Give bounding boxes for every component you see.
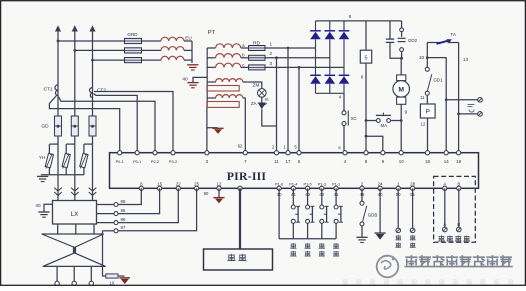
chevron feeder x75 <box>71 188 79 191</box>
label pin1 device <box>395 235 401 240</box>
svg-text:18: 18 <box>425 159 430 164</box>
pin top 18@428 <box>425 151 429 155</box>
label button 4 <box>333 243 339 249</box>
CT2 current transformer <box>90 88 93 98</box>
svg-text:EU: EU <box>185 35 191 40</box>
wire LX to rotor 2 <box>75 224 77 235</box>
chevron feeder x92 <box>89 188 97 191</box>
svg-text:86: 86 <box>121 208 126 213</box>
pin bottom P1-5@308 <box>306 186 310 190</box>
svg-text:PT: PT <box>208 30 216 36</box>
wire pin40 down <box>278 188 280 239</box>
svg-text:86: 86 <box>121 217 126 222</box>
resistor 1X <box>106 274 118 278</box>
wire bus to box5 <box>365 21 367 50</box>
svg-text:81: 81 <box>265 96 269 101</box>
winding PT c <box>207 66 215 68</box>
svg-text:A: A <box>443 222 446 227</box>
svg-text:15: 15 <box>157 181 162 186</box>
ground pin12 <box>213 197 224 199</box>
svg-text:P3-2: P3-2 <box>169 159 177 164</box>
wire drop to term 6 <box>298 67 300 152</box>
wire aux common down <box>206 107 208 152</box>
wire LX stub 87 <box>103 230 115 232</box>
capacitor C1 <box>389 21 391 39</box>
arrester YH2 <box>66 143 75 145</box>
pushbutton SB2 <box>307 188 309 205</box>
block comm interface (dashed) <box>434 176 476 242</box>
wire pin A down <box>444 188 446 227</box>
node motor-MA <box>400 119 403 122</box>
svg-text:P0-1: P0-1 <box>116 159 124 164</box>
node AC3 drop <box>298 66 301 69</box>
terminal B out <box>457 227 462 232</box>
regulator PIR-III box <box>110 153 479 189</box>
pin bottom 28@413 <box>411 186 415 190</box>
block 5 <box>360 50 371 63</box>
watermark faint bottom <box>342 279 514 284</box>
contact GD1 <box>425 67 429 71</box>
svg-text:12: 12 <box>217 181 222 186</box>
block LX terminal box <box>53 201 97 225</box>
wire ground branch <box>207 127 218 129</box>
ground pin24 <box>375 232 386 234</box>
svg-text:LX: LX <box>71 211 79 218</box>
svg-text:62: 62 <box>238 143 243 148</box>
terminal brush 2 <box>73 266 75 281</box>
pin top P0-1@120 <box>118 151 122 155</box>
wire phase bus A with arrow <box>55 25 61 31</box>
wire CT1 lead b <box>49 96 119 153</box>
svg-text:40: 40 <box>35 203 41 208</box>
pushbutton SB1 <box>292 188 294 205</box>
node out1 branch <box>445 98 448 101</box>
node step junction <box>365 135 368 138</box>
pin top 11@276 <box>274 151 278 155</box>
fuse RD b <box>249 55 265 60</box>
block de-excitation <box>204 249 273 270</box>
label button 1 <box>290 243 296 249</box>
wire AC3 to bridge <box>268 66 344 68</box>
svg-text:6: 6 <box>361 74 364 79</box>
node AC2 drop <box>275 56 278 59</box>
wire pin to LX 85 <box>118 188 141 204</box>
ground arresters <box>37 175 48 177</box>
wire DC top bus <box>316 20 402 22</box>
arrester YH1 <box>49 143 58 145</box>
pin bottom 25@197 <box>195 186 199 190</box>
svg-text:17: 17 <box>286 159 291 164</box>
CT1 current transformer <box>55 85 58 96</box>
wire P to term 18 <box>427 118 429 153</box>
fuse GD (3x) <box>55 116 62 136</box>
wire ZA to drop <box>262 109 277 126</box>
svg-text:10: 10 <box>419 55 425 60</box>
svg-text:28: 28 <box>410 181 415 186</box>
svg-text:40: 40 <box>182 77 188 82</box>
wire AC1 to bridge <box>268 47 316 49</box>
terminal LX 86 <box>114 212 118 216</box>
wire pin12 to ground <box>218 188 220 197</box>
pushbutton SB4 <box>335 188 337 205</box>
label button 3 <box>319 243 325 249</box>
contact TA <box>427 42 439 44</box>
pin bottom 1@398 <box>396 186 400 190</box>
svg-text:14: 14 <box>444 159 449 164</box>
wire coils to common <box>184 40 192 42</box>
wire CT2 lead b <box>94 94 138 153</box>
svg-text:13: 13 <box>463 57 469 62</box>
diode V5 <box>329 58 331 76</box>
contact MA <box>366 120 376 122</box>
wire TA right down 13 <box>458 43 460 153</box>
ground GDB <box>356 236 367 238</box>
svg-text:GD2: GD2 <box>408 38 418 43</box>
wire bridge out <box>343 93 345 111</box>
svg-text:GRD: GRD <box>127 32 138 37</box>
svg-text:B: B <box>457 222 460 227</box>
wire box5 to term 8 <box>365 136 367 153</box>
svg-text:P1-3: P1-3 <box>318 181 326 186</box>
wire LX stub 86a <box>97 213 115 215</box>
svg-text:CT1: CT1 <box>43 86 52 92</box>
wire fuse to coil row3 <box>142 59 162 61</box>
diode V4 <box>315 48 317 76</box>
svg-text:90: 90 <box>204 191 209 196</box>
node AC1 drop <box>287 47 290 50</box>
wire AC2 to bridge <box>268 57 330 59</box>
wire fuse to coil row2 <box>142 49 162 51</box>
motor M <box>400 58 402 75</box>
svg-text:A: A <box>443 181 446 186</box>
svg-text:B: B <box>457 181 460 186</box>
wire pin1 down <box>397 188 399 228</box>
wire branch to 14-line <box>427 58 446 153</box>
svg-text:P1-5: P1-5 <box>303 181 311 186</box>
svg-text:ZM: ZM <box>253 82 260 87</box>
winding PT b <box>207 57 215 59</box>
node out2 branch <box>457 113 460 116</box>
fuse RD c <box>249 65 265 70</box>
pin top 8@366 <box>364 151 368 155</box>
terminal LX 85 <box>114 203 118 207</box>
rotor junction <box>73 247 76 253</box>
pin top 10@401 <box>399 151 403 155</box>
pin top 17@288 <box>286 151 290 155</box>
wire phase bus B with arrow <box>72 25 78 31</box>
winding PT aux1 <box>216 79 243 82</box>
arrester YH3 <box>84 143 93 145</box>
svg-text:87: 87 <box>121 225 126 230</box>
fuse GRD (3x) <box>125 38 142 43</box>
terminal pin28 out <box>410 228 415 233</box>
wire LX to rotor 3 <box>93 224 95 235</box>
wire arrester bus <box>41 174 84 176</box>
cable to de-excitation box <box>239 188 241 249</box>
wire tap to GRD row1 <box>58 40 125 42</box>
pin top P2-2@155 <box>153 151 157 155</box>
svg-text:P0-1: P0-1 <box>133 159 141 164</box>
pushbutton SB3 <box>321 188 323 205</box>
wire tap to GRD row2 <box>75 49 125 51</box>
pin top 9@383 <box>381 151 385 155</box>
wire GD1 to P <box>426 95 428 104</box>
label pin28 device <box>410 235 416 240</box>
node MA junction <box>365 119 368 122</box>
svg-text:TA: TA <box>450 32 457 37</box>
ground filter common <box>187 64 198 66</box>
wire DC bottom bus <box>316 92 345 94</box>
label comm text <box>438 236 445 242</box>
wire aux1 to lamp <box>243 82 262 89</box>
svg-text:22: 22 <box>176 181 181 186</box>
terminal brush 1 <box>56 266 58 281</box>
wire PT primary common <box>206 48 208 107</box>
terminal pin1 out <box>396 228 401 233</box>
diode V6 <box>343 67 345 75</box>
pin top 7@245 <box>243 151 247 155</box>
svg-text:11: 11 <box>274 159 279 164</box>
svg-text:GD1: GD1 <box>433 77 443 82</box>
svg-text:9: 9 <box>404 109 407 114</box>
wire to field terminal 2 <box>459 113 478 115</box>
svg-text:M: M <box>398 87 404 94</box>
pin bottom P1-4@293 <box>291 186 295 190</box>
wire drop to term 17 <box>287 48 289 153</box>
wire to field terminal 1 <box>446 99 477 101</box>
svg-text:5: 5 <box>365 55 368 61</box>
svg-text:12: 12 <box>421 121 426 126</box>
wire LX ground lead <box>44 204 53 211</box>
pin bottom P1-6@279 <box>277 186 281 190</box>
wire aux2 to term 7 <box>243 98 246 153</box>
wire tap to GRD row3 <box>93 59 125 61</box>
pin bottom A@445 <box>443 186 447 190</box>
label button 2 <box>305 243 311 249</box>
lamp ZM <box>258 89 267 98</box>
svg-text:XC: XC <box>350 116 356 121</box>
svg-text:CT2: CT2 <box>97 88 106 94</box>
wire box5 down <box>365 63 367 136</box>
pin top 14@446 <box>444 151 448 155</box>
label field symbol <box>468 104 475 106</box>
wire pin to LX 87 <box>118 188 197 231</box>
contact GD2 <box>401 21 403 28</box>
terminal field out 2 <box>478 112 483 117</box>
pin bottom 8@141 <box>139 186 143 190</box>
pin bottom B@459 <box>457 186 461 190</box>
node 14 branch <box>426 56 429 59</box>
wire step to term 9 <box>366 136 383 153</box>
svg-text:P1-4: P1-4 <box>289 181 298 186</box>
block P <box>420 104 435 118</box>
thyristor ZA <box>261 97 263 103</box>
watermark logo <box>377 256 399 278</box>
wire PT neutral tap <box>193 77 207 82</box>
svg-text:85: 85 <box>121 199 126 204</box>
diode V3 <box>343 21 345 31</box>
svg-text:P1-1: P1-1 <box>332 181 340 186</box>
chevron feeder x58 <box>54 188 62 191</box>
svg-text:P: P <box>425 109 430 116</box>
watermark text <box>405 255 419 267</box>
wire TA left down <box>426 43 428 68</box>
wire CT2 lead a <box>94 92 173 153</box>
ground PT neutral <box>187 82 198 84</box>
svg-text:GD: GD <box>41 124 49 130</box>
pin bottom 15@160 <box>158 186 162 190</box>
wire button bus <box>279 238 336 240</box>
pin top 3@207 <box>205 151 209 155</box>
wire pin to LX 86 <box>118 188 178 222</box>
svg-text:RD: RD <box>253 40 260 46</box>
wire pin24 down <box>379 188 381 233</box>
node tap L2 <box>73 49 76 52</box>
pin top 6@299 <box>297 151 301 155</box>
svg-text:GDB: GDB <box>368 212 378 217</box>
rotor winding lower <box>43 253 106 267</box>
rotor winding upper <box>42 234 104 247</box>
pin bottom P1-1@336 <box>334 186 338 190</box>
terminal A out <box>443 227 448 232</box>
svg-text:PIR-III: PIR-III <box>227 169 267 183</box>
pin bottom P1-3@322 <box>320 186 324 190</box>
svg-text:18: 18 <box>456 159 461 164</box>
wire phase bus C with arrow <box>89 25 95 31</box>
diode V2 <box>329 21 331 31</box>
pin top P0-1@137 <box>135 151 139 155</box>
svg-text:YH: YH <box>39 155 45 160</box>
switch GDB <box>361 188 363 201</box>
terminal LX 86 <box>114 221 118 225</box>
svg-text:11: 11 <box>420 95 425 100</box>
svg-text:25: 25 <box>194 181 199 186</box>
terminal brush 3 <box>90 266 92 281</box>
pin top 18@459 <box>457 151 461 155</box>
pin top 4@345 <box>343 151 347 155</box>
ground LX <box>38 211 49 213</box>
winding PT aux2 <box>216 95 243 98</box>
wire XC to term 4 <box>343 126 345 153</box>
winding PT a <box>207 47 215 49</box>
wire motor to term 10 <box>400 104 402 152</box>
wire resistor to ground <box>118 275 125 277</box>
fuse RD a <box>249 46 265 51</box>
inductor EU (3x) <box>161 37 184 41</box>
svg-text:P2-2: P2-2 <box>151 159 159 164</box>
svg-text:10: 10 <box>399 159 404 164</box>
ground PT lower <box>212 127 223 129</box>
wire pin28 down <box>412 188 414 228</box>
svg-text:P1-6: P1-6 <box>275 181 283 186</box>
svg-text:24: 24 <box>378 181 383 186</box>
terminal field out 1 <box>478 98 483 103</box>
wire LX stub 86b <box>97 222 115 224</box>
wire LX stub 85 <box>97 204 115 206</box>
svg-text:ZA: ZA <box>251 101 257 106</box>
diode V1 <box>315 21 317 31</box>
svg-text:1X: 1X <box>109 280 114 285</box>
pin top P3-2@173 <box>171 151 175 155</box>
contact XC <box>342 111 346 115</box>
pin bottom 24@380 <box>378 186 382 190</box>
wire drop to term 11 <box>276 58 278 153</box>
wire LX to rotor 1 <box>57 224 59 235</box>
terminal LX 87 <box>114 229 118 233</box>
ground rotor <box>119 277 130 279</box>
pin bottom 12@219 <box>217 186 221 190</box>
pin bottom 22@178 <box>176 186 180 190</box>
node tap L3 <box>91 59 94 62</box>
wire CT1 lead a <box>59 97 156 153</box>
pin bottom cable@240 <box>238 186 242 190</box>
node tap L1 <box>57 40 60 43</box>
node motor feed <box>400 57 403 60</box>
wire pin to LX 86 <box>118 188 160 213</box>
wire pin B down <box>458 188 460 227</box>
pin bottom 2@362 <box>360 186 364 190</box>
wire 87 to resistor <box>103 231 106 276</box>
wire fuse to coil row1 <box>142 40 162 42</box>
svg-text:MA: MA <box>381 123 388 128</box>
